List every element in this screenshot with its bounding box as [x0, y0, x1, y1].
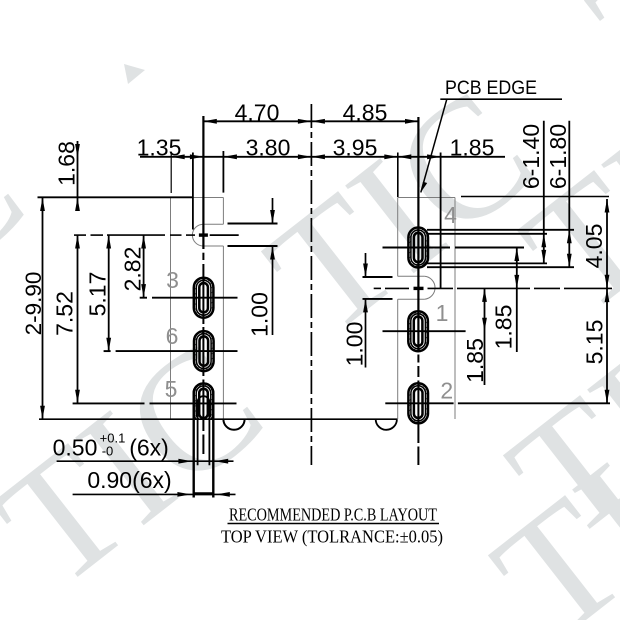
pad 3 row centerline	[140, 297, 238, 299]
dimension 5.17	[85, 235, 112, 351]
svg-text:2-9.90: 2-9.90	[21, 272, 46, 336]
pad 3	[194, 278, 214, 318]
label pad 6	[166, 323, 179, 349]
svg-text:5: 5	[165, 376, 178, 402]
dimension 7.52	[52, 235, 80, 403]
svg-text:5.15: 5.15	[582, 320, 608, 365]
label pad 3	[166, 267, 179, 293]
dimension 1.00 left	[228, 198, 278, 337]
svg-text:5.17: 5.17	[85, 272, 111, 317]
extension line slot tangent	[192, 153, 194, 230]
svg-text:1.85: 1.85	[450, 135, 495, 161]
title line 1	[228, 505, 440, 525]
svg-text:1.85: 1.85	[462, 338, 488, 383]
svg-text:6: 6	[166, 323, 179, 349]
extension line left edge	[170, 152, 172, 193]
label PCB EDGE	[421, 78, 562, 192]
dimension 4.05	[581, 199, 609, 288]
left pad column centerline	[202, 116, 204, 454]
dimension 1.85 upper right	[491, 248, 520, 353]
svg-text:1.35: 1.35	[137, 135, 182, 161]
dimension 1.00 right	[342, 253, 393, 368]
dimension 0.50 slot width	[53, 431, 234, 464]
dimension 1.85 top	[398, 135, 505, 161]
pcb bottom edge line	[39, 419, 397, 430]
pad 2 row centerline	[385, 402, 610, 404]
svg-text:PCB EDGE: PCB EDGE	[445, 78, 537, 99]
svg-text:4.05: 4.05	[581, 224, 607, 269]
dimension 6-1.40	[518, 121, 546, 264]
dimension 1.68	[54, 141, 80, 211]
dimension 4.85	[311, 100, 418, 126]
dimension 3.80	[203, 135, 311, 161]
pad 5	[194, 383, 214, 497]
label pad 2	[440, 378, 453, 404]
pad 6 row centerline	[104, 350, 238, 352]
svg-text:3.80: 3.80	[246, 135, 291, 161]
svg-text:2.82: 2.82	[120, 247, 146, 292]
svg-text:7.52: 7.52	[52, 291, 78, 336]
pad 5 row centerline	[73, 402, 237, 404]
svg-text:6-1.80: 6-1.80	[545, 124, 571, 189]
dimension 0.90 pad width	[73, 467, 236, 497]
dimension 4.70	[203, 100, 311, 126]
svg-text:6-1.40: 6-1.40	[518, 124, 544, 189]
pad 4 row centerline	[383, 247, 525, 249]
pad 2	[408, 383, 428, 423]
pad 6	[194, 331, 214, 371]
extension line 223	[222, 151, 224, 193]
svg-text:RECOMMENDED P.C.B LAYOUT: RECOMMENDED P.C.B LAYOUT	[229, 505, 437, 525]
left part outline	[171, 198, 224, 420]
right pad column centerline	[417, 117, 419, 465]
svg-text:3: 3	[166, 267, 179, 293]
right slot centerline	[374, 287, 612, 289]
svg-text:1.68: 1.68	[54, 141, 80, 186]
svg-text:4.70: 4.70	[235, 100, 280, 126]
pad 4	[408, 228, 428, 268]
label pad 1	[436, 300, 449, 326]
extension line right part edge	[397, 153, 399, 198]
svg-text:1: 1	[436, 300, 449, 326]
pad 1	[408, 311, 428, 351]
dimension 5.15	[582, 288, 610, 403]
label pad 5	[165, 376, 178, 402]
extension line pcb edge right	[440, 153, 442, 289]
svg-text:1.00: 1.00	[342, 322, 368, 367]
svg-text:TOP VIEW (TOLRANCE:±0.05): TOP VIEW (TOLRANCE:±0.05)	[221, 527, 443, 548]
svg-text:1.00: 1.00	[247, 292, 273, 337]
svg-text:-0: -0	[102, 444, 114, 459]
svg-text:3.95: 3.95	[333, 135, 378, 161]
pcb top edge line	[38, 196, 610, 199]
left slot centerline	[74, 234, 239, 236]
dimension 1.35	[137, 135, 204, 161]
svg-text:2: 2	[440, 378, 453, 404]
right part outline	[398, 198, 455, 420]
title line 2	[221, 527, 443, 548]
center vertical centerline	[310, 104, 312, 465]
pad 1 row centerline	[383, 330, 466, 332]
pad 4 extension lines	[427, 230, 574, 267]
dimension 2.82	[120, 235, 147, 298]
svg-text:0.50: 0.50	[53, 435, 98, 461]
dimension 1.85 lower right	[462, 288, 488, 385]
svg-text:4: 4	[444, 202, 457, 228]
svg-text:4.85: 4.85	[343, 100, 388, 126]
svg-text:1.85: 1.85	[491, 305, 517, 350]
dimension 2-9.90	[21, 198, 46, 420]
dimension 6-1.80	[545, 121, 572, 268]
dimension 3.95	[311, 135, 397, 161]
svg-text:(6x): (6x)	[129, 435, 169, 461]
svg-text:0.90(6x): 0.90(6x)	[87, 467, 171, 493]
label pad 4	[444, 202, 457, 228]
